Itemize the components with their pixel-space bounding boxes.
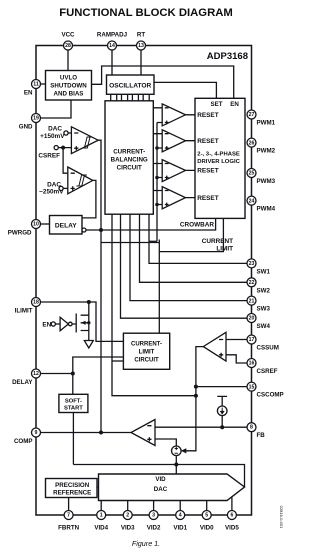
svg-text:VID0: VID0 bbox=[200, 525, 214, 532]
wire crowbar tap to current-limit riser bbox=[101, 242, 159, 244]
pin 14 RAMPADJ bbox=[108, 41, 117, 50]
svg-text:SOFT-: SOFT- bbox=[65, 398, 82, 404]
bubble EN buffer output bbox=[69, 322, 73, 326]
svg-text:CURRENT-: CURRENT- bbox=[131, 342, 162, 348]
svg-text:CSREF: CSREF bbox=[257, 368, 278, 375]
op-amp U-CSSUM (current-sense amplifier) bbox=[203, 332, 226, 361]
svg-text:FUNCTIONAL BLOCK DIAGRAM: FUNCTIONAL BLOCK DIAGRAM bbox=[59, 7, 233, 19]
svg-text:PWM2: PWM2 bbox=[257, 148, 276, 155]
polarity marks phase comparator 2 bbox=[165, 134, 169, 150]
wire CSSUM pin to amplifier inverting input bbox=[226, 339, 252, 341]
junction CSCOMP loop node bbox=[194, 394, 198, 398]
oscillator to current-balancing tab 4 bbox=[143, 94, 149, 101]
svg-text:11: 11 bbox=[33, 82, 39, 88]
wire CSCOMP pin line bbox=[196, 386, 252, 388]
wire CSREF pin to amplifier noninverting input bbox=[226, 355, 252, 363]
svg-text:RESET: RESET bbox=[197, 168, 218, 175]
svg-text:18: 18 bbox=[33, 300, 39, 306]
terminal EN buffer input bbox=[51, 322, 55, 326]
wire EN pin to UVLO box bbox=[36, 83, 46, 85]
wire UVLO to driver-logic EN input bbox=[92, 66, 234, 98]
svg-text:16: 16 bbox=[249, 361, 255, 367]
svg-text:1: 1 bbox=[100, 513, 103, 519]
svg-text:REFERENCE: REFERENCE bbox=[53, 490, 91, 497]
wire summer to VID DAC output tip bbox=[73, 413, 244, 488]
svg-text:17: 17 bbox=[249, 337, 255, 343]
pin 25 PWM3 bbox=[247, 169, 256, 178]
pin 1 VID4 bbox=[97, 511, 106, 520]
junction COMP line bbox=[99, 431, 103, 435]
phase comparator 2 bbox=[162, 130, 185, 152]
bubble DELAY block output bbox=[82, 228, 86, 232]
wire error amp noninverting input to summer bbox=[155, 439, 176, 446]
svg-text:CIRCUIT: CIRCUIT bbox=[117, 165, 142, 172]
wire SW3 net: balancing circuit to SW3 pin bbox=[130, 214, 252, 300]
svg-text:13: 13 bbox=[138, 43, 144, 49]
svg-text:VID1: VID1 bbox=[173, 525, 187, 532]
wire VID4 riser bbox=[100, 501, 102, 516]
svg-text:OSCILLATOR: OSCILLATOR bbox=[109, 82, 151, 89]
svg-text:6: 6 bbox=[230, 513, 233, 519]
svg-text:25: 25 bbox=[249, 171, 255, 177]
plus marks inside summer bbox=[175, 447, 178, 453]
svg-text:PWRGD: PWRGD bbox=[8, 230, 32, 237]
block current-limit circuit bbox=[123, 333, 169, 369]
polarity marks phase comparator 1 bbox=[165, 108, 169, 125]
node CSREF: terminal to window comparators bbox=[58, 148, 71, 174]
svg-text:COMP: COMP bbox=[14, 438, 33, 445]
svg-text:Figure 1.: Figure 1. bbox=[132, 539, 160, 548]
wire FBRTN riser from precision reference bbox=[68, 498, 70, 516]
svg-text:PWM4: PWM4 bbox=[257, 206, 276, 213]
summer node bbox=[172, 446, 182, 456]
wire ramp bus to phase comparator + inputs bbox=[157, 123, 162, 242]
svg-text:CROWBAR: CROWBAR bbox=[180, 222, 214, 229]
svg-text:SW2: SW2 bbox=[257, 287, 271, 294]
polarity marks phase comparator 3 bbox=[165, 164, 169, 180]
pin 3 VID2 bbox=[149, 511, 158, 520]
pin 7 FBRTN bbox=[64, 511, 73, 520]
svg-text:VID5: VID5 bbox=[225, 525, 239, 532]
comparator U-PWRGD-high (DAC +150mV window) bbox=[71, 127, 98, 154]
pin 5 VID0 bbox=[202, 511, 211, 520]
pin 10 PWRGD bbox=[32, 220, 41, 229]
block current-balancing circuit bbox=[105, 101, 153, 214]
wire VID3 riser bbox=[127, 501, 129, 516]
svg-text:21: 21 bbox=[249, 298, 255, 304]
pin 24 PWM4 bbox=[247, 196, 256, 205]
svg-text:AND BIAS: AND BIAS bbox=[54, 91, 84, 98]
pin 16 CSREF bbox=[247, 359, 256, 368]
phase comparator 4 bbox=[162, 187, 185, 209]
svg-text:START: START bbox=[64, 406, 83, 412]
wire oscillator to driver-logic SET input bbox=[154, 82, 216, 98]
svg-text:DAC: DAC bbox=[154, 486, 168, 493]
wire UVLO bias to GND pin bbox=[36, 100, 71, 118]
wire SW4 net: balancing circuit to SW4 pin bbox=[121, 214, 252, 318]
svg-text:SW3: SW3 bbox=[257, 306, 271, 313]
pin 18 ILIMIT bbox=[32, 298, 41, 307]
svg-text:CURRENT: CURRENT bbox=[202, 238, 233, 245]
svg-text:SW1: SW1 bbox=[257, 268, 271, 275]
svg-text:RAMPADJ: RAMPADJ bbox=[97, 32, 128, 39]
op-amp U-error (voltage error amplifier) bbox=[131, 420, 155, 446]
svg-text:CIRCUIT: CIRCUIT bbox=[134, 358, 159, 364]
polarity marks window comparator 1 bbox=[74, 133, 78, 150]
pin 19 GND bbox=[32, 114, 41, 123]
wire VID1 riser bbox=[179, 501, 181, 516]
svg-text:VID: VID bbox=[155, 476, 166, 483]
wire DAC-250mV terminal to comparator bbox=[63, 187, 68, 189]
svg-text:EN: EN bbox=[42, 322, 51, 329]
svg-text:CURRENT-: CURRENT- bbox=[113, 149, 145, 156]
junction ramp bus comparator 4 bbox=[155, 203, 159, 207]
svg-text:FBRTN: FBRTN bbox=[58, 525, 79, 532]
svg-text:ILIMIT: ILIMIT bbox=[15, 308, 33, 315]
pin 9 COMP bbox=[32, 428, 41, 437]
wire RT to oscillator bbox=[140, 46, 142, 76]
svg-text:4: 4 bbox=[179, 513, 182, 519]
wire CSSUM amp output to CSCOMP node and summer arrow bbox=[184, 347, 203, 451]
phase comparator 3 bbox=[162, 160, 185, 182]
svg-text:CSCOMP: CSCOMP bbox=[257, 392, 284, 399]
wires phase comparators inverting inputs from balancing circuit bbox=[153, 108, 162, 191]
svg-text:14: 14 bbox=[109, 43, 115, 49]
block U-UVLO shutdown and bias bbox=[46, 71, 92, 101]
svg-text:20: 20 bbox=[249, 316, 255, 322]
pin 22 SW2 bbox=[247, 278, 256, 287]
wire CROWBAR net: DELAY output to driver logic bbox=[86, 218, 216, 230]
wire tap to current-limit circuit third input bbox=[112, 360, 123, 362]
wire DAC+150mV terminal to comparator bbox=[68, 132, 71, 134]
polarity marks CSSUM amp bbox=[219, 340, 223, 357]
svg-text:12: 12 bbox=[33, 371, 39, 377]
svg-text:22: 22 bbox=[249, 280, 255, 286]
svg-text:RT: RT bbox=[137, 32, 145, 39]
svg-text:ADP3168: ADP3168 bbox=[207, 51, 248, 62]
svg-text:9: 9 bbox=[35, 430, 38, 436]
block oscillator bbox=[107, 75, 155, 94]
pin 8 FB bbox=[247, 423, 256, 432]
block soft-start bbox=[59, 394, 88, 412]
svg-text:3: 3 bbox=[152, 513, 155, 519]
wire SW2 net: balancing circuit to SW2 pin bbox=[140, 214, 252, 282]
svg-text:LIMIT: LIMIT bbox=[139, 350, 155, 356]
pin 12 DELAY bbox=[32, 369, 41, 378]
pin 17 CSSUM bbox=[247, 335, 256, 344]
junction CSCOMP node bbox=[194, 385, 198, 389]
svg-text:FB: FB bbox=[257, 432, 266, 439]
current source arrowhead bbox=[220, 411, 225, 415]
pin 11 EN bbox=[32, 80, 41, 89]
junction MOSFET drain on ILIMIT line bbox=[87, 300, 91, 304]
pin 26 PWM2 bbox=[247, 138, 256, 147]
current source to FB bbox=[217, 406, 227, 416]
wire PWRGD comparator output to DELAY block bbox=[82, 180, 96, 218]
wire ILIMIT pin to MOSFET drain and CL circuit input bbox=[36, 302, 123, 341]
svg-text:19: 19 bbox=[33, 116, 39, 122]
polarity marks window comparator 2 bbox=[71, 173, 75, 190]
svg-text:VID2: VID2 bbox=[147, 525, 161, 532]
svg-text:7: 7 bbox=[67, 513, 70, 519]
svg-text:DELAY: DELAY bbox=[55, 223, 77, 230]
wire balancing circuit to CSCOMP loop (long descender) bbox=[112, 214, 196, 396]
pin 6 VID5 bbox=[227, 511, 236, 520]
svg-text:26: 26 bbox=[249, 140, 255, 146]
phase comparator 1 bbox=[162, 104, 185, 126]
arrow inside current source bbox=[221, 408, 223, 413]
junction ramp bus comparator 3 bbox=[155, 176, 159, 180]
junction CSREF node bbox=[61, 146, 65, 150]
svg-text:PWM1: PWM1 bbox=[257, 120, 276, 127]
oscillator to current-balancing tab 3 bbox=[132, 94, 138, 101]
svg-text:BALANCING: BALANCING bbox=[111, 157, 148, 164]
svg-text:GND: GND bbox=[19, 124, 33, 131]
svg-text:15: 15 bbox=[249, 384, 255, 390]
chip outline ADP3168 bbox=[36, 46, 252, 516]
junction current source on FB line bbox=[220, 425, 224, 429]
svg-text:27: 27 bbox=[249, 112, 255, 118]
pin 15 CSCOMP bbox=[247, 382, 256, 391]
pin 13 RT bbox=[137, 41, 146, 50]
wire VCC to UVLO box bbox=[67, 46, 69, 71]
wire SW1 net: balancing circuit to SW1 pin bbox=[149, 214, 252, 263]
svg-text:10: 10 bbox=[33, 222, 39, 228]
wire EN terminal to buffer to MOSFET gate bbox=[55, 323, 60, 325]
pin 28 VCC bbox=[64, 41, 73, 50]
wire VID0 riser bbox=[206, 501, 208, 516]
svg-text:CSREF: CSREF bbox=[38, 152, 60, 159]
svg-text:SW4: SW4 bbox=[257, 323, 271, 330]
block precision reference bbox=[46, 479, 98, 498]
pin 4 VID1 bbox=[176, 511, 185, 520]
wire PWRGD pin to DELAY block bbox=[36, 223, 50, 225]
svg-text:DRIVER LOGIC: DRIVER LOGIC bbox=[197, 159, 240, 165]
wire CURRENT LIMIT net: CL circuit top riser to driver logic bbox=[159, 218, 223, 333]
hysteresis glyph comparator 1 bbox=[82, 137, 90, 148]
junction ramp bus comparator 2 bbox=[155, 146, 159, 150]
hysteresis glyph comparator 2 bbox=[77, 175, 85, 186]
wire FB pin to error amp inverting input bbox=[155, 426, 252, 428]
block VID DAC banner bbox=[99, 474, 245, 501]
junction Q1 source-body tie bbox=[87, 321, 90, 324]
ground arrow below Q1 bbox=[84, 331, 93, 349]
terminal DAC-250mV bbox=[59, 186, 63, 190]
wire crowbar comparator output down to CROWBAR line and COMP node bbox=[98, 140, 101, 432]
block delay bbox=[50, 216, 83, 235]
wire VID2 riser bbox=[153, 501, 155, 516]
pin 20 SW4 bbox=[247, 314, 256, 323]
svg-text:RESET: RESET bbox=[197, 112, 218, 119]
svg-text:PWM3: PWM3 bbox=[257, 178, 276, 185]
wire RAMPADJ to oscillator bbox=[111, 46, 113, 76]
svg-text:VCC: VCC bbox=[61, 32, 75, 39]
svg-text:28: 28 bbox=[65, 43, 71, 49]
oscillator to current-balancing tab 1 bbox=[111, 94, 117, 101]
current source rail bar bbox=[217, 396, 227, 406]
svg-text:23: 23 bbox=[249, 261, 255, 267]
wire VID5 riser bbox=[231, 497, 233, 515]
svg-text:VID4: VID4 bbox=[94, 525, 108, 532]
svg-text:UVLO: UVLO bbox=[60, 75, 77, 82]
svg-text:PRECISION: PRECISION bbox=[55, 482, 90, 489]
comparator U-crowbar (DAC -250mV window) bbox=[68, 167, 93, 194]
svg-text:DELAY: DELAY bbox=[12, 379, 33, 386]
oscillator to current-balancing tab 2 bbox=[122, 94, 128, 101]
svg-text:SET: SET bbox=[210, 101, 222, 108]
transistor Q1 ilimit shutdown MOSFET bbox=[72, 302, 89, 333]
pin 27 PWM1 bbox=[247, 110, 256, 119]
svg-text:RESET: RESET bbox=[197, 195, 218, 202]
svg-text:CSSUM: CSSUM bbox=[257, 345, 279, 352]
block 2-,3-,4-phase driver logic bbox=[195, 98, 245, 218]
svg-text:+150mV: +150mV bbox=[40, 133, 65, 140]
svg-text:LIMIT: LIMIT bbox=[216, 245, 233, 252]
polarity marks phase comparator 4 bbox=[165, 191, 169, 207]
wire precision reference to VID DAC bbox=[97, 486, 99, 488]
svg-text:5: 5 bbox=[205, 513, 208, 519]
pin 2 VID3 bbox=[123, 511, 132, 520]
terminal DAC+150mV bbox=[64, 131, 68, 135]
pin 21 SW3 bbox=[247, 296, 256, 305]
polarity marks error amp bbox=[147, 426, 151, 442]
svg-text:SHUTDOWN: SHUTDOWN bbox=[50, 83, 87, 90]
svg-text:RESET: RESET bbox=[197, 138, 218, 145]
junction crowbar line / comparator output bbox=[99, 228, 103, 232]
junction summer stem to VID DAC loop bbox=[174, 463, 178, 467]
wire DELAY pin node to soft-start and CL circuit bbox=[36, 357, 123, 394]
pin 23 SW1 bbox=[247, 259, 256, 268]
svg-text:24: 24 bbox=[249, 198, 255, 204]
wire current source to FB line bbox=[221, 416, 223, 428]
svg-text:DAC: DAC bbox=[48, 126, 62, 133]
junction DELAY node bbox=[71, 372, 75, 376]
terminal CSREF bbox=[54, 146, 58, 150]
buffer EN inverter for ILIMIT switch bbox=[60, 317, 68, 331]
svg-text:2-, 3-, 4-PHASE: 2-, 3-, 4-PHASE bbox=[197, 151, 240, 157]
wires phase comparator outputs to RESET inputs bbox=[186, 115, 196, 198]
svg-text:02816-0-001: 02816-0-001 bbox=[279, 506, 284, 529]
svg-text:2: 2 bbox=[126, 513, 129, 519]
wire ramp bus jog to SW1 bbox=[149, 240, 157, 242]
svg-text:VID3: VID3 bbox=[121, 525, 135, 532]
wire COMP pin to error amp output bbox=[36, 432, 131, 434]
Q1 body arrowhead bbox=[81, 321, 86, 325]
arrowhead into summer bbox=[181, 448, 187, 453]
svg-text:8: 8 bbox=[250, 425, 253, 431]
svg-text:EN: EN bbox=[24, 90, 33, 97]
svg-text:EN: EN bbox=[230, 101, 239, 108]
